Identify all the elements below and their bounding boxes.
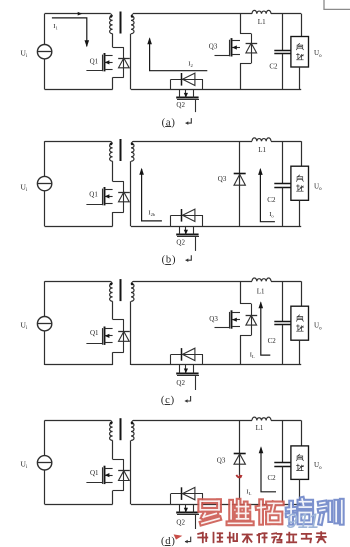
capacitor C2: [274, 321, 290, 323]
caption return mark: [185, 396, 191, 401]
transformer T1 primary winding: [110, 16, 113, 34]
inductor L1: [252, 417, 271, 420]
wire right corner down to load: [301, 14, 303, 37]
wire C2 top: [282, 281, 284, 321]
svg-text:L1: L1: [257, 288, 265, 296]
wire primary winding to Q1 drain: [112, 161, 114, 181]
wire load bottom down: [299, 200, 301, 226]
wire secondary bottom rail through Q2: [171, 89, 203, 91]
red annotation hook near Q3 (row d): [236, 475, 241, 477]
svg-text:Q2: Q2: [176, 519, 185, 527]
wire primary winding to Q1 drain: [112, 34, 114, 48]
wire top secondary: [133, 281, 252, 283]
svg-text:Q1: Q1: [90, 57, 99, 65]
wire C2 top: [282, 14, 284, 51]
transformer T1 primary winding: [110, 423, 113, 441]
wire left vertical: [44, 141, 46, 176]
wire secondary bottom rail right: [203, 226, 301, 228]
wire left vertical: [44, 281, 46, 316]
wire secondary winding down: [130, 301, 132, 365]
transistor Q3: [215, 34, 258, 64]
current annotation I1 (row a): [52, 18, 87, 46]
wire C2 bottom: [282, 187, 284, 226]
load box (fu zai): [291, 166, 309, 200]
wire top right to corner: [271, 281, 301, 283]
wire Q3 branch bottom: [240, 63, 242, 89]
svg-text:C2: C2: [268, 337, 277, 345]
current annotation IL (row d): [261, 448, 276, 492]
caption return mark: [185, 537, 191, 542]
svg-text:911: 911: [286, 510, 319, 533]
wire right corner down to load: [301, 141, 303, 166]
svg-text:Q3: Q3: [218, 175, 227, 183]
wire Q3 branch top: [240, 281, 242, 303]
transformer T1 primary winding: [110, 144, 113, 162]
watermark line 2: she pin he tian xian she ji zhuan jia (dark red): [198, 533, 207, 543]
svg-text:L1: L1: [256, 424, 264, 432]
wire secondary bottom rail right: [203, 364, 301, 366]
transistor Q2 with antiparallel diode: [171, 487, 204, 529]
source Ui circle: [37, 176, 51, 190]
wire Q1 source down: [112, 352, 114, 365]
transformer T1 core: [120, 279, 122, 301]
wire bottom primary rail: [45, 226, 113, 228]
wire secondary bottom rail through Q2: [171, 504, 203, 506]
wire bottom primary rail: [45, 364, 113, 366]
wire secondary bottom rail right: [203, 504, 301, 506]
watermark big characters: yi di tuo (red) pei xun (blue): [200, 501, 219, 523]
wire load bottom down: [299, 479, 301, 504]
wire secondary bottom rail left: [131, 364, 171, 366]
transistor Q2 with antiparallel diode: [171, 209, 204, 251]
capacitor C2: [274, 462, 290, 464]
capacitor C2: [274, 50, 290, 52]
transformer T1 core: [120, 139, 122, 161]
red mark near caption (d): [174, 534, 183, 539]
wire secondary bottom rail left: [131, 89, 171, 91]
transformer T1 core: [120, 12, 122, 34]
svg-text:Q1: Q1: [90, 329, 99, 337]
wire top secondary: [133, 141, 252, 143]
caption return mark: [186, 118, 192, 123]
wire primary winding to Q1 drain: [112, 440, 114, 459]
wire Q1 source down: [112, 491, 114, 505]
wire Q1 source down: [112, 212, 114, 226]
wire Q1 source down: [112, 77, 114, 89]
capacitor C2: [274, 183, 290, 185]
wire left vertical: [44, 420, 46, 455]
svg-text:C2: C2: [269, 63, 278, 71]
wire C2 top: [282, 141, 284, 184]
wire secondary bottom rail through Q2: [171, 364, 203, 366]
transformer T1 secondary winding: [131, 284, 134, 302]
wire Q3 branch: [239, 141, 241, 226]
svg-text:C2: C2: [267, 196, 276, 204]
current annotation Io (row b): [260, 169, 275, 222]
svg-text:Q2: Q2: [176, 101, 185, 109]
wire right corner down to load: [301, 420, 303, 446]
wire load bottom down: [299, 340, 301, 365]
svg-text:Q3: Q3: [209, 42, 218, 50]
wire left vertical: [44, 14, 46, 45]
transistor Q1: [86, 181, 129, 212]
wire Q3 branch: [239, 420, 241, 504]
svg-text:Q2: Q2: [176, 379, 185, 387]
wire top secondary: [133, 420, 252, 422]
wire top primary: [45, 141, 111, 143]
svg-text:Q1: Q1: [89, 190, 98, 198]
wire top right to corner: [271, 13, 301, 15]
svg-text:C2: C2: [268, 474, 277, 482]
wire C2 bottom: [282, 325, 284, 365]
source Ui circle: [37, 456, 51, 470]
transformer T1 secondary winding: [131, 423, 134, 441]
inductor L1: [252, 10, 271, 13]
wire secondary winding down: [130, 34, 132, 90]
wire secondary bottom rail left: [131, 504, 171, 506]
wire bottom primary rail: [45, 504, 113, 506]
transistor Q2 with antiparallel diode: [171, 348, 204, 390]
svg-text:Q2: Q2: [176, 238, 185, 246]
wire C2 bottom: [282, 54, 284, 90]
load box (fu zai): [291, 37, 309, 68]
current annotation I2 (row a): [150, 39, 208, 71]
caption return mark: [186, 255, 192, 260]
wire primary winding to Q1 drain: [112, 301, 114, 319]
transformer T1 core: [120, 418, 122, 440]
source Ui circle: [37, 317, 51, 331]
diode Q3: [234, 174, 246, 186]
svg-text:L1: L1: [258, 146, 266, 154]
svg-text:(b): (b): [162, 254, 177, 265]
load box (fu zai): [291, 306, 309, 340]
transformer T1 secondary winding: [131, 144, 134, 162]
transistor Q2 with antiparallel diode: [171, 73, 204, 112]
diode Q3: [234, 454, 246, 465]
top-right page corner bracket: [324, 0, 350, 9]
svg-text:Q3: Q3: [217, 456, 226, 464]
current annotation IL (row c): [261, 303, 271, 356]
svg-text:L1: L1: [258, 18, 266, 26]
inductor L1: [252, 138, 271, 141]
wire top primary: [45, 281, 111, 283]
wire top secondary: [133, 13, 252, 15]
inductor L1: [252, 278, 271, 281]
wire top right to corner: [271, 420, 301, 422]
wire secondary bottom rail left: [131, 226, 171, 228]
source Ui circle: [37, 45, 51, 59]
transformer T1 secondary winding: [131, 16, 134, 34]
wire secondary winding down: [130, 440, 132, 504]
wire Q3 branch bottom: [240, 335, 242, 365]
transformer T1 primary winding: [110, 284, 113, 302]
transistor Q3: [215, 304, 258, 336]
transistor Q1: [86, 319, 129, 352]
wire secondary bottom rail right: [203, 89, 301, 91]
svg-text:Q1: Q1: [90, 469, 99, 477]
load box (fu zai): [291, 446, 309, 480]
wire right corner down to load: [301, 281, 303, 306]
wire C2 bottom: [282, 466, 284, 504]
wire top primary: [45, 13, 111, 15]
wire bottom primary rail: [45, 89, 113, 91]
wire top primary: [45, 420, 111, 422]
transistor Q1: [86, 47, 129, 77]
wire secondary bottom rail through Q2: [171, 226, 203, 228]
wire C2 top: [282, 420, 284, 462]
svg-text:Q3: Q3: [209, 315, 218, 323]
current annotation I2b (row b): [142, 169, 162, 221]
transistor Q1: [86, 459, 129, 490]
wire secondary winding down: [130, 161, 132, 226]
wire load bottom down: [299, 67, 301, 89]
arrowhead on top wire (row a): [78, 12, 83, 16]
wire Q3 branch top: [240, 14, 242, 34]
wire top right to corner: [271, 141, 301, 143]
